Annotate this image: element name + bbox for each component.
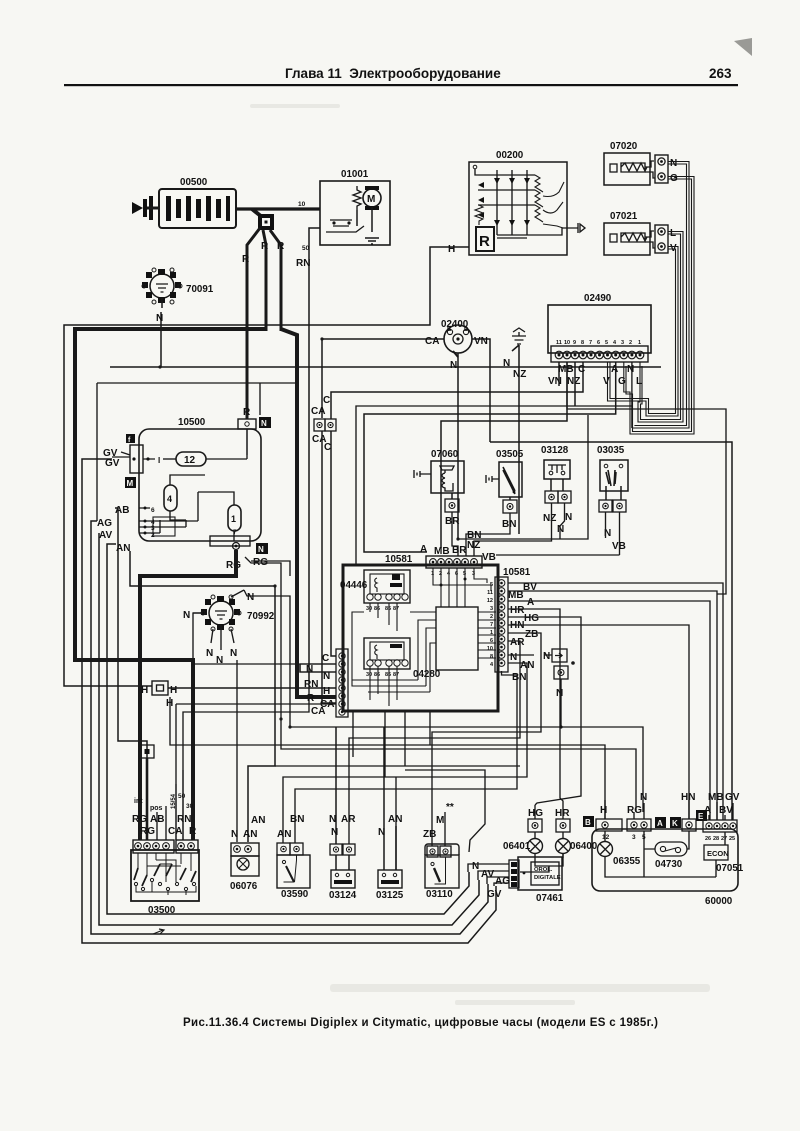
svg-text:85: 85 [385, 672, 391, 678]
svg-text:70992: 70992 [247, 611, 275, 622]
svg-text:27: 27 [721, 836, 727, 842]
svg-text:BV: BV [719, 805, 733, 816]
10500 oval 1 [198, 492, 241, 541]
svg-text:RN: RN [304, 679, 318, 690]
switch 03035 [599, 460, 628, 555]
svg-text:06076: 06076 [230, 881, 258, 892]
wire AR module to 03124 [349, 641, 520, 844]
svg-text:AN: AN [277, 829, 291, 840]
svg-text:00500: 00500 [180, 177, 208, 188]
svg-text:06401: 06401 [503, 841, 531, 852]
wire MB long run 02490 to 60000 [567, 362, 726, 594]
inline connector CA/C pair [311, 395, 336, 453]
svg-text:N: N [206, 648, 213, 659]
switch 03590 [277, 814, 310, 900]
wire CA module to 03500 [176, 704, 336, 784]
svg-text:03035: 03035 [597, 445, 625, 456]
wire N 02400 to x588 [458, 415, 588, 539]
07021 terminals L V [655, 225, 677, 254]
svg-text:03124: 03124 [329, 890, 357, 901]
svg-text:R: R [307, 693, 315, 704]
svg-text:H: H [141, 685, 148, 696]
svg-text:04446: 04446 [340, 580, 368, 591]
svg-text:04730: 04730 [655, 859, 683, 870]
svg-text:VB: VB [482, 552, 496, 563]
svg-text:BR: BR [452, 545, 467, 556]
wire RN to 03500 [182, 770, 184, 840]
connector 04280 [364, 638, 410, 678]
svg-text:GV: GV [725, 792, 740, 803]
module top strip labels A MB BR [420, 544, 467, 557]
svg-text:int: int [134, 798, 143, 805]
svg-text:R: R [242, 254, 250, 265]
svg-text:N: N [503, 358, 510, 369]
wire C run to module [331, 362, 583, 656]
svg-text:N: N [230, 648, 237, 659]
svg-text:N: N [247, 592, 254, 603]
svg-text:86: 86 [374, 672, 380, 678]
svg-text:RG: RG [132, 814, 147, 825]
svg-text:50: 50 [302, 245, 310, 252]
svg-text:N: N [329, 814, 336, 825]
svg-text:CA: CA [311, 706, 325, 717]
svg-text:12: 12 [184, 455, 196, 466]
svg-text:ZB: ZB [423, 829, 436, 840]
svg-text:R: R [261, 241, 269, 252]
svg-text:C: C [322, 653, 329, 664]
svg-text:11: 11 [487, 590, 493, 596]
03500 stub pins 15/54 and 30 [157, 806, 166, 840]
svg-text:1: 1 [231, 514, 236, 524]
svg-text:NZ: NZ [567, 376, 580, 387]
wire BN module to 03590 [295, 671, 517, 843]
starter motor 01001 [320, 181, 390, 245]
svg-text:N: N [331, 827, 338, 838]
lamp 06401 [503, 805, 543, 862]
svg-text:26: 26 [705, 836, 711, 842]
svg-text:CA: CA [168, 826, 182, 837]
thick bus R2 left run to 03500 R [75, 329, 266, 840]
switch 07060 [414, 461, 464, 556]
svg-text:A: A [657, 819, 663, 828]
thick bus RG from 10500 to 03500 [140, 550, 236, 840]
svg-text:86: 86 [374, 606, 380, 612]
wire GV long run [490, 442, 732, 820]
wire NZ from 02490 [574, 362, 576, 406]
instrument cluster 60000 [592, 829, 738, 891]
svg-text:03110: 03110 [426, 889, 453, 900]
ignition switch 03500 [131, 840, 199, 901]
svg-text:R: R [243, 407, 251, 418]
wire AN module to senders [283, 663, 527, 870]
svg-text:N: N [261, 419, 267, 428]
wire HG module to 06401 [508, 617, 581, 805]
spark plug ring 70091 [142, 268, 182, 304]
wire U-bundle L [638, 232, 683, 423]
wire ZB module to 03110 [432, 633, 541, 846]
module left pin strip [336, 649, 348, 717]
07020 terminals N G [655, 155, 678, 184]
svg-text:BN: BN [512, 672, 526, 683]
svg-text:M: M [127, 479, 134, 488]
10500 oval 4 [164, 475, 205, 520]
svg-text:2: 2 [490, 614, 493, 620]
module 10581 box [343, 565, 498, 711]
wire R3 [270, 230, 285, 331]
wire R2 [261, 230, 269, 331]
svg-text:CA: CA [425, 336, 439, 347]
svg-text:AN: AN [251, 815, 265, 826]
svg-text:AN: AN [388, 814, 402, 825]
svg-text:N: N [450, 360, 457, 371]
70992 N wires [183, 590, 254, 842]
60000 connector B + pin 12 [583, 800, 622, 841]
wire H from alternator [64, 244, 469, 686]
10500 oval 12 [176, 452, 247, 466]
60000 strip pins 3 5 [627, 792, 651, 841]
wire coil to motor 01001 with label 10 [236, 201, 320, 209]
wire AN branch to 06076 [130, 551, 275, 842]
10500 pin 7 RG [210, 529, 290, 576]
svg-text:70091: 70091 [186, 284, 214, 295]
svg-text:Рис.11.36.4 Системы Digiplex: Рис.11.36.4 Системы Digiplex и Citymatic… [183, 1017, 658, 1029]
lamp 06355 inside 60000 [598, 831, 726, 877]
svg-text:7: 7 [233, 529, 237, 536]
svg-text:**: ** [446, 802, 454, 813]
svg-text:A: A [527, 597, 534, 608]
wire y766 link [275, 765, 520, 767]
wire CA to 03500 [175, 784, 177, 840]
svg-text:06355: 06355 [613, 856, 641, 867]
03500 wire labels [132, 793, 197, 837]
wire CA lower run to module [322, 431, 336, 703]
N stub connector right of module [508, 649, 568, 699]
svg-text:03128: 03128 [541, 445, 569, 456]
wire U-bundle G [624, 177, 694, 435]
fuse 07020 [604, 153, 655, 185]
svg-text:BN: BN [502, 519, 516, 530]
thick bus R3 right run to module R [281, 329, 336, 697]
wire RG thin 10500 to 60000 pin3 [245, 557, 636, 812]
svg-text:A: A [420, 544, 427, 555]
fuse 07021 [604, 223, 655, 255]
svg-text:50: 50 [178, 793, 186, 800]
svg-text:07060: 07060 [431, 449, 459, 460]
wire M stub 03110 [444, 812, 446, 846]
svg-text:8: 8 [581, 340, 584, 346]
svg-text:87: 87 [393, 606, 399, 612]
svg-text:12: 12 [602, 834, 610, 841]
svg-text:10500: 10500 [178, 417, 206, 428]
header [64, 38, 752, 86]
wire AN down left column [107, 544, 469, 914]
junction splice below wire [252, 209, 274, 230]
wire A module to 60000 [508, 601, 710, 820]
svg-text:GV: GV [487, 889, 502, 900]
svg-text:10: 10 [564, 340, 570, 346]
svg-text:N: N [231, 829, 238, 840]
wire N-box link above 10500 [97, 383, 297, 521]
svg-text:HG: HG [524, 613, 539, 624]
wire N 70992 to 60000 pin5 [244, 590, 643, 812]
svg-text:28: 28 [713, 836, 719, 842]
module left wire labels [304, 653, 334, 717]
svg-text:3: 3 [621, 340, 624, 346]
svg-text:BN: BN [290, 814, 304, 825]
svg-text:1: 1 [490, 630, 493, 636]
60000 strip 26 28 27 25 [703, 792, 740, 842]
svg-text:DIGITALE: DIGITALE [534, 875, 561, 881]
svg-text:R: R [189, 826, 197, 837]
svg-text:85: 85 [385, 606, 391, 612]
spark plug ring 70992 [201, 595, 241, 631]
svg-text:H: H [323, 686, 330, 697]
svg-text:02400: 02400 [441, 319, 469, 330]
svg-text:N: N [306, 664, 313, 675]
H splice connector [141, 681, 336, 709]
60000 connector A K [655, 817, 681, 828]
svg-text:M: M [367, 194, 375, 205]
svg-text:5: 5 [490, 582, 493, 588]
wire MB module stub [508, 591, 717, 820]
svg-text:N: N [565, 512, 572, 523]
svg-text:H: H [170, 685, 177, 696]
svg-text:AR: AR [510, 637, 525, 648]
svg-text:N: N [627, 364, 634, 375]
svg-text:11: 11 [556, 340, 562, 346]
alternator 00200 [469, 162, 585, 255]
wire N module left pins [193, 613, 336, 672]
svg-text:I: I [158, 456, 160, 465]
svg-text:10581: 10581 [385, 554, 413, 565]
sender 03125 [376, 727, 404, 901]
svg-text:07021: 07021 [610, 211, 638, 222]
lamp unit 06076 [230, 815, 265, 892]
svg-text:AN: AN [243, 829, 257, 840]
svg-text:N: N [378, 827, 385, 838]
svg-text:RG: RG [140, 826, 155, 837]
lamp 06400 [520, 805, 598, 872]
60000 connector E [696, 810, 707, 821]
connector 04446 [364, 570, 410, 612]
svg-text:L: L [636, 376, 642, 387]
diagnostic socket 02400 [444, 325, 472, 353]
svg-text:87: 87 [393, 672, 399, 678]
svg-text:K: K [672, 819, 678, 828]
wire U-bundle V [608, 247, 679, 417]
svg-text:30: 30 [366, 606, 372, 612]
module bottom stub wires [353, 711, 430, 777]
svg-text:G: G [618, 376, 626, 387]
module internal wires top pins to IC [352, 568, 496, 706]
svg-text:6: 6 [151, 507, 155, 514]
svg-text:N: N [183, 610, 190, 621]
svg-text:07051: 07051 [716, 863, 744, 874]
wire AV down left column [99, 533, 479, 925]
module top pin strip [426, 556, 482, 577]
wire N module stub join [560, 686, 562, 727]
svg-text:VN: VN [474, 336, 488, 347]
svg-text:6: 6 [597, 340, 600, 346]
svg-text:30: 30 [186, 803, 194, 810]
svg-text:A: A [611, 364, 618, 375]
svg-text:ZB: ZB [525, 629, 538, 640]
02490 wire labels [548, 364, 642, 387]
svg-text:Глава 11 Электрооборудование: Глава 11 Электрооборудование [285, 66, 501, 81]
svg-text:9: 9 [573, 340, 576, 346]
control unit 10500 [139, 429, 261, 541]
svg-text:R: R [479, 233, 490, 250]
switch 03110 [423, 802, 459, 900]
switch 03128 [474, 460, 572, 556]
svg-text:ECON: ECON [707, 849, 729, 858]
svg-text:M: M [436, 815, 444, 826]
svg-text:2: 2 [629, 340, 632, 346]
svg-text:C: C [324, 442, 331, 453]
wire A from 02490 [364, 362, 616, 552]
ignition coil 00500 [159, 189, 236, 228]
svg-text:03590: 03590 [281, 889, 309, 900]
wire N clock upper feed [405, 770, 485, 852]
svg-text:AG: AG [97, 518, 112, 529]
svg-text:N: N [543, 651, 550, 662]
svg-text:B: B [585, 818, 591, 827]
wire HR module to 06400 [508, 609, 563, 805]
svg-text:RN: RN [177, 814, 191, 825]
svg-text:3: 3 [632, 834, 636, 841]
svg-text:N: N [510, 652, 517, 663]
svg-text:RN: RN [296, 258, 310, 269]
splice box on AB wire [140, 745, 154, 840]
fuel gauge 04730 inside 60000 [644, 831, 689, 870]
svg-text:3: 3 [490, 606, 493, 612]
svg-text:C: C [578, 364, 585, 375]
wire VN from 02400 [472, 336, 559, 442]
svg-text:AV: AV [99, 530, 112, 541]
wire AB down to 03500 [115, 508, 147, 840]
wire CA from 02400 [322, 336, 444, 418]
svg-text:VN: VN [548, 376, 562, 387]
svg-text:02490: 02490 [584, 293, 612, 304]
wire N into module left [300, 664, 336, 672]
digital clock 07461 [468, 857, 564, 904]
svg-text:25: 25 [729, 836, 735, 842]
svg-text:pos: pos [150, 805, 163, 812]
svg-text:00200: 00200 [496, 150, 524, 161]
connector block 02490 [548, 305, 651, 362]
wire N from 70091 [110, 298, 661, 367]
02490 pins [555, 351, 644, 359]
svg-text:07020: 07020 [610, 141, 638, 152]
switch 03505 [466, 462, 522, 556]
module right pin strip [487, 577, 508, 672]
svg-text:5: 5 [605, 340, 608, 346]
svg-text:N: N [258, 545, 264, 554]
wire U-bundle N [632, 162, 689, 429]
svg-text:30: 30 [366, 672, 372, 678]
svg-text:H: H [448, 244, 455, 255]
svg-text:03505: 03505 [496, 449, 524, 460]
distributor arrow left of coil [132, 196, 159, 220]
svg-text:12: 12 [487, 598, 493, 604]
wire BV module to 60000 [508, 583, 723, 820]
wire VB from 03035 to module strip [482, 552, 620, 563]
svg-text:03125: 03125 [376, 890, 404, 901]
wire 50 / RN from starter [296, 228, 320, 683]
svg-text:RG: RG [226, 560, 241, 571]
svg-text:NZ: NZ [513, 369, 526, 380]
svg-text:C: C [323, 395, 330, 406]
10500 pin R terminal [238, 407, 271, 455]
wire R1 to 10500 [242, 228, 260, 419]
svg-text:HR: HR [510, 605, 525, 616]
wire MB from 02490 to module top strip [441, 362, 567, 548]
ground symbol near 02490 [503, 328, 526, 534]
wire N from 02400 [450, 351, 458, 539]
svg-text:H: H [600, 805, 607, 816]
svg-text:N: N [156, 313, 163, 324]
svg-text:1: 1 [638, 340, 641, 346]
ECON indicator 07051 [704, 845, 744, 874]
svg-text:06400: 06400 [570, 841, 598, 852]
svg-text:NZ: NZ [543, 513, 556, 524]
10500 pins AB AG AV AN [97, 492, 198, 554]
svg-text:01001: 01001 [341, 169, 369, 180]
wire GV from 10500 down left column [82, 459, 496, 943]
svg-text:R: R [277, 241, 285, 252]
svg-text:V: V [603, 376, 610, 387]
wire AG down left column [91, 521, 488, 934]
wire RN branch to 03500 [183, 683, 309, 770]
svg-text:4: 4 [167, 494, 172, 504]
central IC box [436, 607, 478, 670]
svg-text:7: 7 [589, 340, 592, 346]
svg-text:60000: 60000 [705, 896, 733, 907]
60000 HN pin [681, 792, 696, 831]
svg-text:10: 10 [487, 646, 493, 652]
svg-text:03500: 03500 [148, 905, 176, 916]
svg-text:MB: MB [558, 364, 574, 375]
wire N 02490 pin2 run to module [356, 362, 632, 565]
svg-text:10581: 10581 [503, 567, 531, 578]
svg-text:8: 8 [490, 654, 493, 660]
10500 internal: pin I with GV [103, 434, 176, 488]
svg-text:7: 7 [490, 622, 493, 628]
sender 03124 [329, 727, 357, 901]
svg-text:263: 263 [709, 66, 732, 81]
wire H splice to 60000 pin12 [170, 697, 605, 819]
svg-text:AB: AB [115, 505, 129, 516]
wire HN module to 60000 [508, 625, 689, 819]
svg-text:07461: 07461 [536, 893, 564, 904]
svg-text:CA: CA [311, 406, 325, 417]
module right wire labels [508, 582, 539, 683]
svg-text:6: 6 [490, 638, 493, 644]
svg-text:HN: HN [681, 792, 695, 803]
svg-text:10: 10 [298, 201, 306, 208]
